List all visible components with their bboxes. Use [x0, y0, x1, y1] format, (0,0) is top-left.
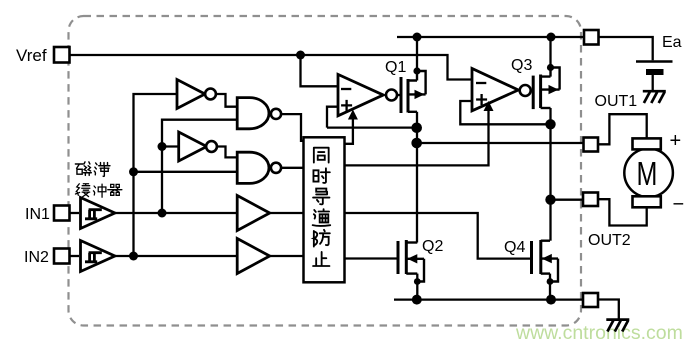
transistor Q3	[533, 68, 559, 110]
svg-text:Q4: Q4	[504, 239, 525, 256]
wire IN2 line	[115, 255, 238, 257]
wire inverter2 out jog to NAND2	[216, 147, 237, 158]
buffer G6	[237, 239, 270, 274]
node bottom rail Q2	[412, 295, 422, 305]
wire Vref horizontal	[70, 54, 301, 56]
wire Vref to comparator U1 minus	[301, 55, 339, 86]
U1 arrow head	[348, 110, 358, 120]
wire Q2 source to rail	[416, 274, 418, 300]
chip dashed boundary	[69, 16, 582, 326]
wire U1 bubble to Q1 gate	[397, 94, 401, 96]
node rail Q3	[547, 33, 556, 42]
wire Q3 drain to rail	[549, 37, 551, 68]
wire box to Q4 gate	[345, 213, 531, 259]
G1 bubble	[205, 89, 216, 100]
wire top pin to capacitor	[599, 37, 653, 60]
wire U1 plus feedback	[327, 107, 338, 128]
wire node A line	[327, 126, 417, 128]
svg-text:IN1: IN1	[25, 206, 50, 223]
wire inverter1 out jog to NAND1	[216, 94, 237, 107]
transistor Q2	[398, 240, 424, 282]
svg-text:M: M	[637, 156, 658, 193]
NAND gate G4	[237, 152, 269, 183]
wire buffer2 output to box	[270, 255, 305, 257]
ground bottom right	[606, 320, 629, 332]
Q3 arrow	[549, 85, 559, 94]
schmitt buffer B1	[81, 198, 115, 229]
motor top terminal	[633, 138, 661, 149]
capacitor Ea bottom plate	[646, 69, 664, 75]
NAND gate G3	[237, 98, 269, 129]
svg-text:OUT1: OUT1	[595, 93, 638, 110]
comparator U2	[472, 69, 518, 111]
wire IN2 pin to schmitt	[70, 255, 80, 257]
svg-text:OUT2: OUT2	[588, 232, 631, 249]
comparator U1	[338, 74, 383, 115]
wire IN2 vertical to inverter1	[134, 94, 177, 256]
U2 arrow head	[484, 101, 494, 111]
node rail Q1	[413, 33, 422, 42]
node IN2 line tap	[129, 252, 138, 261]
wire inverter2 input	[162, 145, 179, 147]
inverter G1	[177, 80, 205, 109]
wire OUT2 to pin	[551, 199, 584, 201]
motor bottom terminal	[633, 196, 661, 207]
U1 output bubble	[386, 90, 397, 101]
svg-text:IN2: IN2	[24, 249, 49, 266]
wire Q1 drain to rail	[416, 37, 418, 71]
node A Q1 source	[411, 123, 422, 134]
box label 同时导通防止	[313, 148, 331, 266]
svg-text:Ea: Ea	[662, 34, 682, 51]
label hysteresis buffer 缓冲器	[75, 184, 121, 197]
buffer G5	[237, 196, 270, 231]
svg-text:+: +	[670, 130, 682, 152]
wire Vref to comparator U2 minus	[301, 55, 473, 80]
inverter G2	[179, 132, 207, 161]
wire OUT2 pin to motor minus	[598, 199, 647, 225]
node Q3 drain	[547, 64, 554, 71]
wire box to U2 arrow feed	[345, 107, 489, 165]
svg-text:Vref: Vref	[16, 46, 47, 65]
wire IN1 pin to schmitt	[70, 212, 80, 214]
svg-text:Q3: Q3	[511, 57, 532, 74]
wire bottom rail	[394, 298, 583, 300]
capacitor Ea top plate	[636, 60, 673, 63]
wire NAND2 lower input	[134, 171, 238, 173]
wire box to U1 arrow feed	[345, 115, 353, 144]
pin VCC top right	[584, 30, 599, 45]
wire buffer1 output to box	[270, 212, 305, 214]
svg-text:Q1: Q1	[385, 59, 406, 76]
G2 bubble	[206, 141, 217, 152]
anti shoot-through box	[304, 137, 345, 282]
pin OUT1	[584, 138, 599, 152]
schmitt buffer B2	[81, 241, 115, 272]
node Q4 bulk	[547, 278, 554, 285]
Q1 arrow	[415, 90, 425, 99]
svg-text:−: −	[673, 194, 685, 216]
node IN1 line tap	[158, 209, 167, 218]
motor M	[624, 149, 673, 198]
node OUT1	[411, 138, 422, 149]
wire U2 bubble to Q3 gate	[530, 89, 533, 91]
wire Q4 drain up	[549, 200, 551, 241]
node OUT2	[545, 195, 555, 205]
wire capacitor to ground	[652, 74, 654, 91]
wire Q4 source to rail	[549, 274, 551, 300]
wire NAND1 output to box	[281, 114, 304, 141]
pin IN1	[54, 206, 70, 221]
node IN2 inverter tap	[129, 167, 138, 176]
wire box to Q2 gate	[345, 257, 398, 259]
wire top supply rail	[397, 36, 584, 38]
pin Vref	[54, 47, 70, 63]
transistor Q1	[401, 71, 426, 113]
wire NAND2 output to box	[281, 167, 304, 169]
svg-text:Q2: Q2	[422, 238, 443, 255]
pin OUT2	[583, 193, 598, 207]
svg-text:www.cntronics.com: www.cntronics.com	[515, 322, 683, 344]
node Vref junction	[296, 51, 305, 60]
pin GND	[583, 293, 598, 307]
node inverter2 input	[158, 142, 167, 151]
wire IN1 vertical to NAND1	[162, 120, 237, 213]
ground below capacitor	[643, 91, 666, 103]
wire Q1/Q2 vertical	[416, 143, 418, 243]
wire OUT1 pin to motor plus	[598, 114, 647, 144]
pin IN2	[54, 249, 70, 264]
G4 bubble	[271, 163, 281, 173]
node bottom rail Q4	[546, 295, 556, 305]
wire GND pin to ground	[598, 300, 619, 320]
wire Q3 source down	[549, 108, 551, 200]
node U2 feedback	[545, 119, 555, 129]
wire U2 plus feedback	[460, 101, 550, 124]
wire OUT1 rail	[417, 142, 584, 144]
wire Q1 source to node	[416, 112, 418, 143]
Q2 arrow	[407, 254, 417, 263]
node Q1 drain	[413, 67, 420, 74]
node Q2 bulk	[414, 278, 421, 285]
G3 bubble	[271, 109, 281, 119]
label hysteresis buffer 磁滞	[75, 162, 110, 176]
wire IN1 line	[115, 212, 238, 214]
Q4 arrow	[542, 254, 552, 263]
transistor Q4	[532, 240, 559, 282]
U2 output bubble	[520, 85, 531, 96]
